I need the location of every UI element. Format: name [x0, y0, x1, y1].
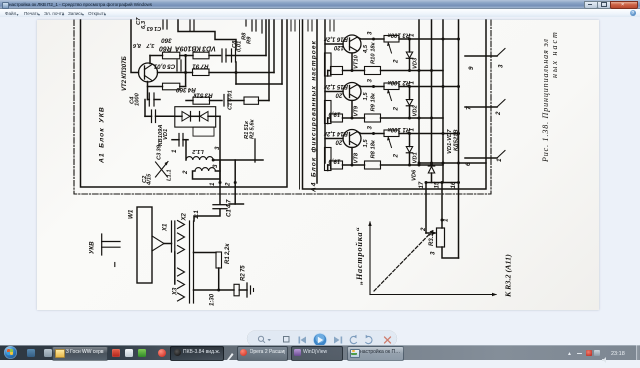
dashed arrow	[374, 231, 433, 292]
ground bar under pin2	[229, 203, 244, 205]
potentiometer R1 100к	[384, 130, 399, 137]
resistor R7	[193, 69, 210, 76]
resistor R6	[163, 52, 180, 59]
wire base	[325, 138, 343, 140]
wire	[218, 268, 220, 290]
pin wire y182	[426, 182, 459, 184]
window title bar	[0, 0, 640, 9]
transistor VT2	[139, 63, 158, 82]
collector wire	[357, 37, 374, 39]
variable arrow through L1.1	[156, 162, 169, 178]
wire emitter down	[351, 53, 353, 71]
wire y290	[194, 289, 235, 291]
pin1 to X2	[194, 209, 220, 221]
wire base	[325, 43, 343, 45]
pin 1 stub	[219, 160, 221, 183]
resistor R1 2.2k	[216, 252, 222, 268]
block A1 frame	[81, 20, 288, 187]
A4 supply rails	[316, 20, 318, 183]
transistor VT10	[343, 35, 361, 53]
inductor L1.1	[195, 168, 215, 171]
block A4 frame	[303, 20, 487, 189]
resistor R14 1,2к	[325, 148, 332, 171]
resistor R60	[193, 52, 209, 59]
wire	[180, 55, 193, 57]
node riser x266	[265, 20, 267, 56]
W1 taper to X1	[152, 236, 164, 244]
resistor R8 18к	[365, 161, 381, 169]
diode VD6	[431, 163, 433, 166]
UKV antenna connector	[101, 234, 103, 255]
resistor R3	[193, 97, 210, 104]
diode VD2	[409, 87, 411, 100]
wire row y72 (VT2 drain)	[158, 72, 193, 74]
capacitor C4	[148, 93, 150, 106]
wire y84	[236, 83, 282, 85]
wire VT2 bottom	[147, 82, 149, 100]
capacitor C9	[231, 49, 233, 62]
caption buttons	[584, 1, 598, 10]
A4 bus lines	[418, 20, 420, 163]
varicap sub-box	[193, 127, 214, 136]
capacitor C10 0.01	[223, 95, 225, 107]
resistor row wire	[327, 71, 329, 77]
ground	[246, 283, 248, 297]
wire emitter down	[351, 101, 353, 119]
capacitor C1 4.7	[213, 204, 227, 206]
resistor left	[331, 114, 343, 122]
wire box right to pin1 riser	[216, 115, 220, 117]
wire riser x274	[273, 20, 275, 73]
resistor R15 1,2к	[325, 101, 332, 124]
pin 17	[425, 183, 427, 234]
inductor L1.2	[185, 140, 187, 160]
wire	[209, 72, 274, 74]
capacitor C8	[221, 49, 223, 62]
collector wire	[357, 132, 374, 134]
diode VD3	[409, 39, 411, 52]
wire X2 to R1	[194, 252, 217, 254]
transistor VT8	[343, 130, 361, 148]
taskbar	[0, 345, 640, 360]
resistor R10 18к	[365, 67, 381, 75]
pin 15	[441, 183, 443, 229]
resistor R1/R2	[244, 97, 259, 104]
pin 2 riser	[234, 160, 236, 204]
border stubs 3/2/1	[465, 55, 497, 57]
photo viewer control bar	[0, 328, 640, 345]
diode VD1	[409, 134, 411, 147]
wire riser x282	[281, 20, 283, 84]
wire y160	[213, 159, 263, 161]
X1/X2 chevrons	[178, 221, 185, 229]
wire VT2 top	[149, 56, 151, 64]
wire gate VT2	[131, 20, 139, 73]
wire riser x236	[235, 62, 237, 84]
capacitor C5	[176, 60, 178, 71]
antenna W1	[137, 207, 152, 283]
resistor row wire	[327, 165, 329, 171]
wiper arrow	[388, 42, 392, 53]
top edge cut ticks	[189, 20, 191, 31]
wire row y86	[148, 86, 163, 88]
outer dash-dot frame	[74, 20, 491, 194]
resistor R9 18к	[365, 114, 381, 122]
potentiometer R3 100к	[384, 36, 399, 43]
wiper arrow	[388, 137, 392, 148]
X3 chevrons	[178, 268, 185, 276]
capacitor C6	[178, 134, 180, 147]
wire row y100	[186, 100, 193, 102]
resistor left	[331, 161, 343, 169]
wire riser x269	[268, 20, 270, 101]
capacitor C3	[151, 110, 153, 123]
wire stairs top	[178, 20, 236, 49]
resistor left	[331, 67, 343, 75]
pin 16	[458, 183, 460, 259]
collector wire	[357, 85, 374, 87]
wiper arrow	[388, 90, 392, 101]
wire riser x185	[185, 56, 187, 87]
menu bar	[0, 9, 640, 18]
wire base	[325, 91, 343, 93]
transformer X2 bars	[189, 221, 191, 303]
resistor row wire	[327, 118, 329, 124]
resistor R16 1,2к	[325, 53, 332, 76]
tuning graph axes	[369, 222, 371, 295]
transistor VT9	[343, 83, 361, 101]
stub bar x255	[254, 139, 256, 162]
varicap diode a	[182, 112, 190, 122]
resistor R2 75	[234, 284, 239, 296]
wire emitter down	[351, 148, 353, 166]
potentiometer R3.1	[437, 228, 445, 247]
common wire y163	[419, 162, 486, 164]
resistor R4	[163, 83, 180, 90]
wire	[239, 289, 247, 291]
transformer X1 bars	[171, 221, 173, 252]
wire	[209, 55, 221, 57]
varicap diode b	[200, 112, 208, 122]
wire row y55	[150, 55, 163, 57]
varicap VD1 box	[175, 107, 216, 127]
potentiometer R2 100к	[384, 83, 399, 90]
photo (scanned schematic page)	[37, 20, 599, 310]
